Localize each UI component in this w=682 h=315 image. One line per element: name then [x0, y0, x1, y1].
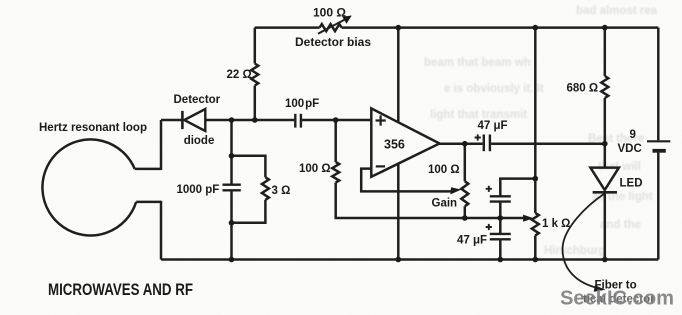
label 100 ohm (input)	[299, 163, 331, 175]
wire op-amp output to 47uF	[440, 142, 483, 145]
label 356	[384, 137, 405, 151]
capacitor C 100pF plates	[295, 114, 301, 128]
battery BT1 negative plate	[653, 149, 666, 153]
label Detector bias	[295, 35, 371, 49]
svg-text:100 Ω: 100 Ω	[299, 163, 331, 175]
LED D2 triangle	[590, 168, 619, 190]
loop neck bottom	[136, 201, 161, 204]
wire output cap to LED line	[491, 142, 605, 145]
svg-text:MICROWAVES AND RF: MICROWAVES AND RF	[48, 281, 193, 299]
label Hertz resonant loop	[39, 122, 147, 134]
svg-text:Detector bias: Detector bias	[295, 35, 371, 49]
LED cathode bar	[593, 191, 617, 194]
label Gain	[432, 197, 458, 209]
wire 100ohm input branch upper	[334, 120, 337, 162]
wire 22ohm branch upper	[254, 28, 257, 64]
watermark SeekIC.com	[560, 287, 674, 310]
label 100 ohm gain	[428, 164, 460, 176]
svg-text:3 Ω: 3 Ω	[272, 185, 291, 197]
label LED	[620, 178, 643, 190]
wire 3ohm branch top	[232, 156, 266, 178]
plus sign of filter cap	[486, 186, 492, 192]
wire detector line right to op-amp	[302, 119, 371, 122]
svg-text:100 Ω: 100 Ω	[313, 6, 346, 20]
wire 1000pF branch upper	[230, 120, 233, 184]
wire LED to bottom rail	[604, 193, 607, 260]
svg-text:Hertz resonant loop: Hertz resonant loop	[39, 122, 147, 134]
wire 1k to bottom rail	[534, 235, 537, 259]
label 1000 pF	[177, 184, 220, 196]
wire op-amp V+ from top rail	[397, 28, 400, 122]
label Fiber to	[595, 280, 637, 292]
wire feedback from minus input to gain wiper	[361, 169, 452, 192]
label 47 uF bottom	[457, 234, 487, 246]
svg-text:22 Ω: 22 Ω	[227, 69, 252, 81]
wire 22ohm branch lower	[254, 86, 257, 121]
feedback wiper arrowhead into gain pot	[450, 187, 461, 194]
wire detector line mid	[206, 119, 294, 122]
svg-text:diode: diode	[184, 135, 215, 147]
wire 1000pF branch lower	[230, 191, 233, 260]
op-amp U1 356 triangle	[371, 108, 439, 176]
svg-text:bad almost rea: bad almost rea	[576, 5, 658, 17]
potentiometer R 1k zigzag	[532, 213, 539, 236]
svg-text:Detector: Detector	[174, 94, 221, 106]
label 1 k ohm	[542, 218, 570, 230]
capacitor C filter plates	[490, 196, 511, 201]
label 100 ohm (detector bias)	[313, 6, 346, 20]
svg-text:e is obviously it. It: e is obviously it. It	[444, 83, 544, 95]
battery BT1 positive plate	[647, 140, 670, 142]
wire 3ohm branch bottom	[232, 200, 266, 223]
label 3 ohm	[272, 185, 291, 197]
wire 680 to LED	[604, 98, 607, 167]
wire op-amp V- to bottom rail	[397, 164, 400, 260]
svg-text:LED: LED	[620, 178, 643, 190]
svg-text:SeekIC.com: SeekIC.com	[560, 287, 674, 310]
top rail wire left segment	[255, 26, 320, 29]
label diode	[184, 135, 215, 147]
fiber optic pointer curve	[563, 194, 605, 288]
label Detector	[174, 94, 221, 106]
wire vertical 535 from top rail	[534, 28, 537, 213]
diode D1 detector triangle	[184, 109, 205, 131]
label 100 pF	[285, 98, 319, 110]
capacitor C 47uF output plates	[484, 135, 490, 152]
wiper arrowhead into 1k pot	[523, 215, 534, 222]
svg-text:9: 9	[630, 129, 636, 141]
label 22 ohm	[227, 69, 252, 81]
diode D1 detector cathode bar	[181, 111, 184, 129]
resistor R 3 ohm	[262, 177, 269, 200]
label 9 VDC	[618, 129, 642, 155]
plus sign of output 47uF	[475, 134, 481, 140]
wire 680 ohm branch upper	[604, 28, 607, 76]
wire loop to diode vertical	[160, 120, 163, 170]
wire middle cap branch horizontal	[500, 179, 535, 196]
op-amp minus input symbol	[376, 165, 385, 167]
svg-text:100 Ω: 100 Ω	[428, 164, 460, 176]
svg-text:Gain: Gain	[432, 197, 458, 209]
svg-text:beam that beam wh: beam that beam wh	[424, 57, 531, 69]
wire 100ohm bottom then right to 1k wiper	[336, 183, 524, 219]
title MICROWAVES AND RF	[48, 281, 193, 299]
loop neck top	[135, 168, 161, 171]
resistor R 100 ohm input	[332, 162, 339, 183]
wire detector line left	[161, 119, 182, 122]
svg-text:1000 pF: 1000 pF	[177, 184, 220, 196]
top rail wire right segment	[342, 26, 659, 29]
potentiometer R-bias arrow	[318, 16, 352, 34]
svg-text:Hirschburg: Hirschburg	[544, 245, 605, 257]
label hidden dark text under watermark	[583, 294, 655, 306]
bottom rail wire	[161, 258, 658, 261]
svg-text:47 μF: 47 μF	[457, 234, 487, 246]
potentiometer R-bias 100 ohm zigzag	[320, 24, 342, 31]
resistor R 680 ohm	[601, 76, 608, 98]
svg-text:1 k Ω: 1 k Ω	[542, 218, 570, 230]
ghost bleed-through text background	[424, 5, 658, 257]
wire right rail upper with battery	[657, 28, 660, 141]
wire right rail lower	[657, 153, 660, 260]
svg-text:356: 356	[384, 137, 405, 151]
potentiometer gain upper lead	[464, 144, 467, 182]
fiber pointer arrowhead	[594, 285, 606, 292]
wire bottom 47uF to rail	[499, 240, 502, 260]
label 47 uF output	[478, 120, 508, 132]
op-amp plus input symbol	[376, 115, 386, 125]
resistor R 22 ohm	[251, 64, 258, 86]
potentiometer R gain 100 ohm zigzag	[461, 181, 468, 206]
capacitor C 1000pF plates	[223, 185, 241, 191]
capacitor C 47uF bottom plates	[490, 234, 511, 239]
label 680 ohm	[567, 82, 599, 94]
svg-text:100 pF: 100 pF	[285, 98, 319, 110]
wire filter cap lower lead	[499, 202, 502, 218]
Hertz resonant loop circle	[42, 139, 136, 235]
wire bottom 47uF upper lead	[499, 218, 502, 233]
svg-text:680 Ω: 680 Ω	[567, 82, 599, 94]
svg-text:47 μF: 47 μF	[478, 120, 508, 132]
potentiometer gain lower lead	[464, 206, 467, 218]
wire loop to bottom rail vertical	[160, 201, 163, 260]
svg-text:and the: and the	[600, 219, 641, 231]
svg-text:VDC: VDC	[618, 143, 642, 155]
plus sign of bottom 47uF	[486, 224, 492, 230]
